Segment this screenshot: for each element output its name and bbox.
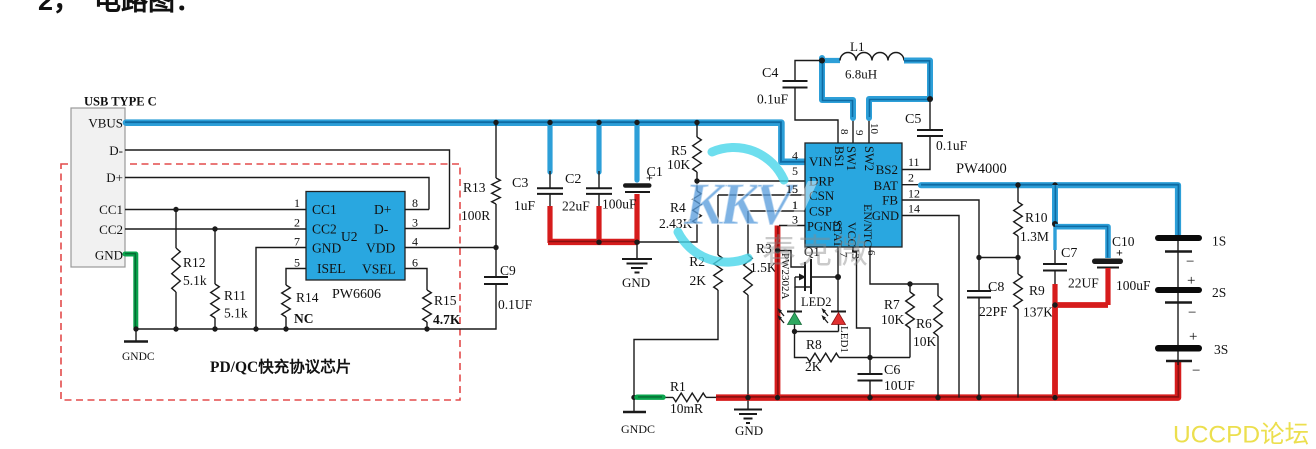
svg-text:UCCPD论坛: UCCPD论坛 xyxy=(1173,421,1309,449)
capacitor C9 0.1UF xyxy=(484,248,533,313)
watermark white slash xyxy=(787,181,818,226)
svg-text:PW6606: PW6606 xyxy=(332,287,381,302)
svg-text:GNDC: GNDC xyxy=(621,422,655,436)
svg-text:3: 3 xyxy=(792,213,798,227)
node bus C2 xyxy=(596,240,601,245)
svg-text:5: 5 xyxy=(294,256,300,270)
wire VCC pin13 xyxy=(853,247,870,358)
wire U2 pin7 GND xyxy=(256,248,306,330)
svg-text:10UF: 10UF xyxy=(884,378,915,393)
node FB/C8 xyxy=(976,255,981,260)
U2 pin numbers xyxy=(294,196,418,270)
wire SW2 xyxy=(868,119,870,143)
svg-text:VDD: VDD xyxy=(366,241,395,256)
battery cell 3S xyxy=(1155,303,1228,380)
battery cell 2S xyxy=(1155,252,1226,322)
svg-text:2K: 2K xyxy=(805,359,822,374)
svg-text:BS1: BS1 xyxy=(832,146,846,168)
svg-text:R9: R9 xyxy=(1029,283,1045,298)
svg-text:14: 14 xyxy=(908,202,920,216)
capacitor C1 100uF polarized xyxy=(602,120,663,244)
PW4000 pin numbers xyxy=(786,123,920,260)
svg-text:3S: 3S xyxy=(1214,342,1228,357)
red ground bus (bottom) xyxy=(716,362,1178,398)
svg-text:9: 9 xyxy=(853,130,865,136)
svg-text:R13: R13 xyxy=(463,180,486,195)
wire STAT pin7 xyxy=(837,247,839,277)
node SW/C4 xyxy=(819,58,825,64)
svg-text:1uF: 1uF xyxy=(514,198,536,213)
svg-text:VBUS: VBUS xyxy=(88,116,123,131)
svg-text:+: + xyxy=(1187,273,1195,289)
node Q1 drain xyxy=(835,274,841,280)
svg-text:CC1: CC1 xyxy=(99,202,123,217)
resistor R1 10mR shunt xyxy=(634,379,718,416)
wire to C10 (blue) xyxy=(1055,227,1108,258)
red PGND vertical wire xyxy=(775,226,781,399)
svg-text:10mR: 10mR xyxy=(670,401,703,416)
wire GND pin14 xyxy=(902,216,959,398)
svg-text:10K: 10K xyxy=(913,334,937,349)
svg-text:BAT: BAT xyxy=(873,178,898,193)
svg-text:VIN: VIN xyxy=(809,154,833,169)
svg-text:CC2: CC2 xyxy=(99,222,123,237)
node DRP divider xyxy=(694,178,699,183)
svg-text:KKV: KKV xyxy=(683,171,799,237)
ground GND middle xyxy=(734,398,763,438)
svg-text:7: 7 xyxy=(294,235,300,249)
svg-text:R12: R12 xyxy=(183,255,206,270)
resistor R6 10K xyxy=(910,284,942,400)
wire CC2 xyxy=(125,228,306,230)
svg-text:10: 10 xyxy=(868,123,880,135)
svg-text:8: 8 xyxy=(412,196,418,210)
node GNDC middle xyxy=(631,395,636,400)
svg-text:11: 11 xyxy=(908,155,920,169)
node LED/R8 xyxy=(792,329,797,334)
watermark swoosh + KKV xyxy=(678,147,784,262)
svg-text:VSEL: VSEL xyxy=(362,262,396,277)
capacitor C4 0.1uF bootstrap xyxy=(757,61,838,144)
svg-text:C6: C6 xyxy=(884,363,900,378)
svg-text:FB: FB xyxy=(882,193,898,208)
node red C7 xyxy=(1052,302,1057,307)
PD/QC section dashed outline xyxy=(61,164,460,400)
wire D+ xyxy=(125,178,429,210)
wire R4 bottom to GND node xyxy=(637,224,697,242)
LED1 red xyxy=(822,277,851,353)
svg-text:BS2: BS2 xyxy=(876,162,898,177)
svg-text:C8: C8 xyxy=(988,280,1004,295)
ground GND (caps) xyxy=(622,242,652,290)
svg-text:C4: C4 xyxy=(762,66,778,81)
svg-text:−: − xyxy=(1192,363,1200,379)
svg-text:GNDC: GNDC xyxy=(122,351,155,363)
capacitor C8 22PF xyxy=(967,258,1008,401)
svg-text:D+: D+ xyxy=(374,202,391,217)
resistor R9 137K xyxy=(1014,258,1054,398)
svg-text:D-: D- xyxy=(109,143,123,158)
wire FB pin12 xyxy=(902,200,979,258)
svg-text:2，: 2， xyxy=(38,0,80,16)
svg-text:5.1k: 5.1k xyxy=(183,273,207,288)
svg-text:PD/QC快充协议芯片: PD/QC快充协议芯片 xyxy=(210,357,351,376)
node bus/PGND xyxy=(775,395,780,400)
svg-text:CC2: CC2 xyxy=(312,222,337,237)
node CC1/R12 xyxy=(173,207,178,212)
wire DRP to chip xyxy=(697,180,805,182)
capacitor C3 1uF xyxy=(512,120,563,243)
svg-text:R10: R10 xyxy=(1025,210,1048,225)
svg-text:D-: D- xyxy=(374,222,389,237)
wire D- xyxy=(125,150,450,229)
node red bus xyxy=(1052,395,1057,400)
svg-text:−: − xyxy=(1186,254,1194,270)
svg-text:C3: C3 xyxy=(512,176,528,191)
node BAT/C7 xyxy=(1052,182,1057,187)
svg-text:R6: R6 xyxy=(916,316,932,331)
svg-text:R15: R15 xyxy=(434,293,457,308)
svg-text:2K: 2K xyxy=(690,273,707,288)
svg-text:4: 4 xyxy=(412,235,418,249)
svg-text:L1: L1 xyxy=(850,39,864,54)
svg-text:USB TYPE C: USB TYPE C xyxy=(84,95,157,109)
svg-text:22UF: 22UF xyxy=(1068,276,1099,291)
resistor R3 1.5K xyxy=(744,211,777,398)
svg-text:C9: C9 xyxy=(500,263,516,278)
USB Type C connector J1 xyxy=(71,95,157,268)
svg-text:6.8uH: 6.8uH xyxy=(845,67,877,82)
svg-text:1.3M: 1.3M xyxy=(1020,229,1049,244)
svg-text:LED1: LED1 xyxy=(838,326,850,353)
svg-text:4: 4 xyxy=(792,149,798,163)
svg-text:NC: NC xyxy=(294,311,314,326)
svg-text:1S: 1S xyxy=(1212,234,1226,249)
svg-text:GND: GND xyxy=(95,248,123,263)
svg-text:+: + xyxy=(646,171,653,185)
capacitor C5 0.1uF bootstrap xyxy=(902,99,968,170)
wire U2 pin3 D- xyxy=(405,228,450,230)
svg-text:R11: R11 xyxy=(224,288,246,303)
wire BAT (thick blue) to battery xyxy=(902,185,1179,236)
red wire C7/C10 to bus xyxy=(1055,305,1108,398)
node C7/C10 blue xyxy=(1052,221,1058,227)
svg-text:0.1uF: 0.1uF xyxy=(936,138,968,153)
svg-text:C2: C2 xyxy=(565,172,581,187)
svg-text:SW1: SW1 xyxy=(844,146,858,171)
node VDD/R13/C9 xyxy=(493,245,498,250)
ground GNDC middle xyxy=(621,397,655,436)
svg-text:12: 12 xyxy=(908,187,920,201)
svg-text:100R: 100R xyxy=(461,208,490,223)
svg-text:+: + xyxy=(1116,246,1123,260)
node BAT/R10 xyxy=(1015,182,1020,187)
svg-text:C5: C5 xyxy=(905,112,921,127)
node Q1 gate on PGND wire xyxy=(775,248,780,253)
svg-text:U2: U2 xyxy=(341,229,358,244)
svg-text:22uF: 22uF xyxy=(562,199,590,214)
svg-text:5.1k: 5.1k xyxy=(224,306,248,321)
red ground bus (caps) xyxy=(548,239,637,245)
svg-text:CC1: CC1 xyxy=(312,202,337,217)
svg-text:1: 1 xyxy=(792,198,798,212)
svg-text:22PF: 22PF xyxy=(979,304,1008,319)
node FB divider xyxy=(1015,255,1020,260)
svg-text:D+: D+ xyxy=(106,170,123,185)
node CC2/R11 xyxy=(212,226,217,231)
resistor R8 2K xyxy=(795,332,840,375)
svg-text:R5: R5 xyxy=(671,143,687,158)
svg-text:C7: C7 xyxy=(1061,246,1077,261)
svg-text:CSP: CSP xyxy=(809,204,832,219)
svg-text:ISEL: ISEL xyxy=(317,261,346,276)
wire SW1 xyxy=(852,119,854,143)
svg-text:10K: 10K xyxy=(667,157,691,172)
battery cell 1S xyxy=(1155,234,1226,271)
svg-text:5: 5 xyxy=(792,164,798,178)
svg-text:15: 15 xyxy=(786,182,798,196)
svg-text:GND: GND xyxy=(312,241,341,256)
node C6/R7/R8 xyxy=(867,355,872,360)
resistor R14 NC xyxy=(282,269,319,332)
wire node to R7 bottom xyxy=(839,357,910,359)
resistor R4 2.43K xyxy=(659,181,701,231)
svg-text:6: 6 xyxy=(412,256,418,270)
svg-text:R1: R1 xyxy=(670,379,686,394)
inductor L1 6.8uH with SW loop xyxy=(822,39,930,143)
svg-text:GND: GND xyxy=(735,423,763,438)
node GND bus xyxy=(634,240,639,245)
svg-text:2S: 2S xyxy=(1212,285,1226,300)
resistor R5 10K xyxy=(667,120,701,181)
resistor R7 10K xyxy=(881,284,914,358)
svg-text:−: − xyxy=(1188,305,1196,321)
capacitor C10 100uF polarized xyxy=(1092,234,1151,305)
svg-text:2: 2 xyxy=(908,171,914,185)
resistor R10 1.3M xyxy=(1014,185,1049,258)
ground GNDC xyxy=(122,329,155,363)
wire CSP xyxy=(748,210,805,212)
wire CSN xyxy=(718,194,805,196)
transistor Q1 PW2302A xyxy=(778,244,839,311)
wire PGND pin3 xyxy=(779,225,805,227)
svg-text:LED2: LED2 xyxy=(801,295,832,309)
svg-text:R14: R14 xyxy=(296,290,319,305)
svg-text:10K: 10K xyxy=(881,312,905,327)
wire GND (thick green) xyxy=(125,254,136,329)
wire CC1 xyxy=(125,209,306,211)
svg-text:137K: 137K xyxy=(1023,305,1053,320)
svg-text:GND: GND xyxy=(622,275,650,290)
LED2 green xyxy=(778,295,832,332)
wire U2 pin8 D+ xyxy=(405,209,429,211)
svg-text:3: 3 xyxy=(412,216,418,230)
svg-text:SW2: SW2 xyxy=(862,146,876,171)
capacitor C6 10UF xyxy=(858,358,916,401)
ground rail wire (PD section) xyxy=(136,284,496,329)
resistor R13 100R xyxy=(461,120,500,248)
svg-text:2: 2 xyxy=(294,216,300,230)
svg-text:8: 8 xyxy=(838,129,850,135)
svg-text:100uF: 100uF xyxy=(1116,278,1151,293)
svg-text:100uF: 100uF xyxy=(602,197,637,212)
capacitor C2 22uF xyxy=(562,120,612,244)
svg-text:PW4000: PW4000 xyxy=(956,161,1007,177)
svg-text:春克微: 春克微 xyxy=(762,233,870,271)
resistor R11 5.1k xyxy=(211,229,248,332)
svg-text:+: + xyxy=(1189,329,1197,345)
resistor R15 4.7K xyxy=(405,269,461,332)
svg-text:0.1UF: 0.1UF xyxy=(498,297,533,312)
wire U2 pin4 VDD xyxy=(405,247,496,249)
charger chip U1 PW4000 xyxy=(805,143,902,248)
wire LED cathodes xyxy=(795,331,839,333)
resistor R12 5.1k xyxy=(172,210,207,332)
node SW/C5 xyxy=(927,96,933,102)
resistor R2 2K xyxy=(634,195,722,397)
capacitor C7 22UF xyxy=(1043,185,1099,305)
node rail/GNDC xyxy=(133,326,138,331)
svg-text:电路图：: 电路图： xyxy=(94,0,202,16)
wire VBUS (thick blue) xyxy=(125,122,805,162)
op-chip U2 PW6606 xyxy=(306,192,405,303)
wire EN/NTC pin6 xyxy=(870,247,910,284)
svg-text:4.7K: 4.7K xyxy=(433,312,461,327)
svg-text:R7: R7 xyxy=(884,297,900,312)
node bus/GND xyxy=(745,395,750,400)
node EN/R7/R6 xyxy=(907,281,912,286)
svg-text:0.1uF: 0.1uF xyxy=(757,92,789,107)
svg-text:R8: R8 xyxy=(806,337,822,352)
svg-text:1: 1 xyxy=(294,196,300,210)
